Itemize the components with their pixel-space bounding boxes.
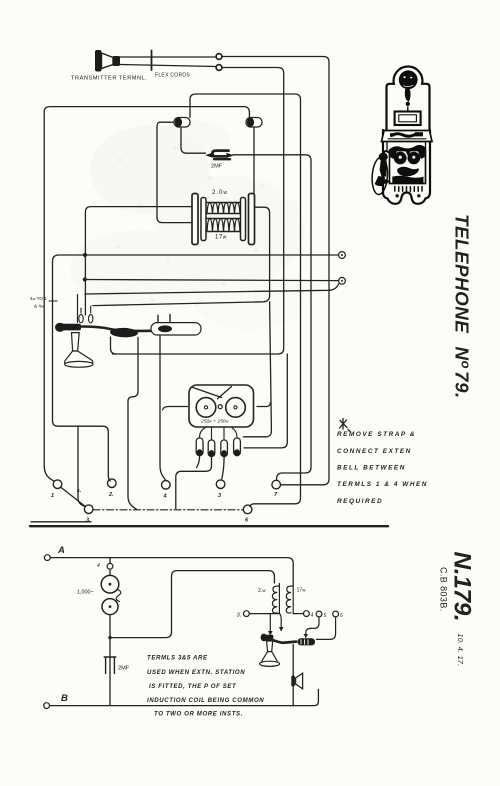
svg-text:2.: 2.	[108, 492, 114, 498]
watch receiver speaker	[291, 673, 302, 689]
junction to extension loop	[110, 571, 274, 638]
svg-text:TO TWO OR MORE INSTS.: TO TWO OR MORE INSTS.	[154, 711, 243, 718]
wire: lower flex down right side to hookswitch line	[113, 68, 284, 355]
capacitor 2MF	[205, 151, 234, 170]
note text bottom: termls 3and5	[147, 655, 264, 718]
svg-text:2.0w: 2.0w	[212, 190, 228, 196]
svg-text:REMOVE STRAP &: REMOVE STRAP &	[337, 431, 416, 438]
bell terminal cylinder 3	[221, 440, 228, 457]
receiver cord loop	[371, 157, 389, 195]
wire bead to gong1	[109, 569, 111, 575]
svg-text:TERMLS 1 & 4 WHEN: TERMLS 1 & 4 WHEN	[337, 481, 428, 488]
terminal circle 6 bottom	[333, 611, 339, 617]
wire: cyl2 bottom down to coil top-right	[253, 127, 255, 195]
terminal circle 3 bottom	[244, 611, 250, 617]
terminal circle 4	[162, 481, 171, 490]
ringer bell dark	[399, 70, 418, 89]
title TELEPHONE No 79 rotated	[452, 214, 474, 399]
terminal circle upper flex	[216, 54, 222, 60]
wire: bell enclosure right stub	[257, 403, 270, 407]
svg-text:4: 4	[311, 613, 314, 619]
bell clapper	[405, 89, 411, 102]
svg-text:4: 4	[97, 563, 100, 569]
svg-text:1: 1	[51, 493, 54, 499]
svg-text:B: B	[61, 693, 68, 704]
wire: outer rect left edge down to terminal 1	[44, 112, 54, 481]
bell terminal cylinder 4	[234, 438, 241, 456]
wire flex cord upper	[120, 56, 216, 58]
wire pivot riser	[77, 295, 79, 323]
induction coil IC	[192, 194, 255, 245]
terminal circle 1	[53, 480, 62, 489]
note text top: remove strap	[337, 431, 428, 505]
svg-text:C.B 803B.: C.B 803B.	[439, 567, 449, 612]
svg-text:3: 3	[218, 493, 221, 499]
hanging receiver	[379, 153, 388, 161]
wire drop to bell branch	[109, 558, 111, 564]
wire winding right bottom to circle 4	[293, 613, 303, 615]
terminal circle 2	[108, 479, 117, 488]
wire circle6 to contact capsule right	[317, 617, 336, 639]
flex cord tie mark	[151, 51, 153, 71]
wire: capacitor right across and down right side to terminal 7	[233, 155, 311, 481]
wire gong down to capacitor	[109, 615, 111, 656]
wire: branch down to bell terminal 4	[244, 354, 287, 448]
wire circle3 to winding bottom and pivot	[249, 613, 279, 615]
svg-text:2MF: 2MF	[211, 164, 223, 170]
svg-text:USED WHEN EXTN. STATION: USED WHEN EXTN. STATION	[147, 669, 245, 676]
svg-text:4: 4	[163, 494, 167, 500]
wire rung 4 to coil right side	[93, 207, 270, 305]
case box	[390, 151, 426, 184]
scan smudge noise	[70, 120, 305, 330]
hookswitch contact capsule dark	[110, 327, 138, 337]
wire drop from loop bottom to lower terminal 3	[78, 426, 85, 506]
hookswitch lever arm	[80, 327, 187, 331]
svg-text:CONNECT EXTEN: CONNECT EXTEN	[337, 448, 412, 455]
wire flex cord lower	[120, 65, 216, 67]
case bells	[394, 152, 407, 165]
wire circle5 to contact over lever	[304, 617, 319, 638]
divider tick	[31, 521, 91, 523]
wire rung 1 left loop rounded rect down around hookswitch	[53, 255, 111, 481]
hook pivot block bottom	[261, 634, 274, 642]
svg-text:REQUIRED: REQUIRED	[337, 498, 383, 505]
wire rung 1 to right terminal C1	[85, 254, 338, 256]
bell terminal stubs	[200, 427, 238, 440]
strap wire dashed lower row	[93, 509, 243, 511]
phone backboard upper	[387, 66, 430, 130]
wire: upper flex to outer right edge down to terminal 7	[222, 57, 329, 485]
svg-text:A: A	[57, 545, 65, 556]
bell armature pivot	[218, 405, 222, 409]
svg-text:4w TO 1: 4w TO 1	[30, 296, 47, 301]
terminal circle 5 bottom	[316, 611, 322, 617]
wire line B	[50, 690, 319, 706]
svg-text:1,000~: 1,000~	[77, 590, 94, 596]
hookswitch spring contact right	[89, 306, 93, 323]
slate frame	[395, 112, 421, 126]
svg-text:3.: 3.	[237, 613, 242, 619]
wire: contact block drop vc to terminal 4	[160, 336, 166, 480]
dark band battery box	[392, 176, 423, 184]
svg-text:5: 5	[324, 613, 327, 619]
svg-text:250w + 250w: 250w + 250w	[200, 419, 229, 425]
label left small	[30, 296, 47, 309]
terminal circle 4 bottom	[304, 611, 310, 617]
hookswitch spring contact left	[79, 308, 83, 323]
wire: contact capsule drop to hook line	[111, 337, 117, 354]
terminal B	[44, 703, 50, 709]
wire bell term1 stub	[197, 456, 200, 468]
svg-text:TELEPHONE: TELEPHONE	[452, 214, 473, 333]
receiver horn on hook	[65, 333, 94, 368]
small terminal bead	[107, 563, 113, 569]
wire: capsule right drop column va	[128, 338, 138, 510]
bell gong upper 1000ohm	[101, 575, 119, 593]
divider line between diagrams	[30, 525, 388, 527]
wire line A to transformer right winding	[50, 558, 293, 583]
terminal A	[44, 555, 50, 561]
shelf	[382, 131, 433, 142]
bell gong lower	[102, 599, 118, 615]
svg-text:6: 6	[340, 613, 343, 619]
terminal circle 3	[216, 480, 225, 489]
wire: outer rect top edge from left edge into receiver cyl2	[44, 107, 249, 117]
wire: receiver cyl1 right end up, across y94, down right side to lower terminal 6	[190, 94, 301, 507]
wire: cyl1 left stub down to coil lower-left	[157, 122, 192, 222]
svg-text:BELL BETWEEN: BELL BETWEEN	[337, 465, 406, 472]
junction dot B	[83, 277, 87, 281]
wire bell term3 to terminal 3	[222, 457, 224, 479]
terminal circle lower flex	[216, 65, 222, 71]
receiver horn bottom	[260, 641, 280, 666]
wavy dark band top of case	[389, 145, 425, 151]
svg-text:2MF: 2MF	[118, 666, 130, 672]
svg-text:10. 4. 17.: 10. 4. 17.	[456, 634, 465, 667]
bell gong left	[196, 398, 216, 418]
terminal circle lower-right	[243, 505, 252, 514]
items on shelf	[392, 134, 416, 137]
terminal circle lower-left	[84, 505, 93, 514]
svg-text:INDUCTION COIL BEING COMMON: INDUCTION COIL BEING COMMON	[147, 697, 264, 704]
wire bell term2 down left	[176, 457, 212, 509]
junction dot bottom	[108, 636, 111, 639]
junction dot A	[83, 253, 87, 257]
svg-text:TRANSMITTER TERMNL.: TRANSMITTER TERMNL.	[71, 76, 147, 82]
hookswitch pivot block	[55, 323, 81, 332]
wire cross diagonals bell hammer	[192, 387, 232, 399]
note asterisk mark	[340, 419, 351, 432]
terminal number labels	[51, 488, 278, 524]
terminal circle 7	[272, 480, 281, 489]
svg-text:& 4w.: & 4w.	[34, 304, 45, 309]
svg-text:FLEX CORDS: FLEX CORDS	[155, 73, 190, 79]
svg-text:17w: 17w	[215, 235, 227, 241]
contact finger 2	[279, 613, 284, 632]
wire: cyl1 bottom to capacitor	[181, 127, 206, 153]
right terminal circle C1	[339, 252, 346, 259]
bell terminal cylinder 2	[208, 440, 215, 457]
hookswitch contact block outline	[151, 315, 201, 336]
transformer left winding	[272, 584, 279, 614]
wire: bell enclosure left stub	[163, 407, 188, 411]
svg-text:IS FITTED, THE P OF SET: IS FITTED, THE P OF SET	[149, 683, 237, 690]
bell terminal cylinder 1	[196, 438, 203, 456]
transmitter mouthpiece	[397, 167, 419, 177]
feet dots	[396, 194, 399, 197]
capacitor 2MF bottom	[104, 657, 116, 706]
receiver terminal cylinder 1	[174, 118, 190, 128]
wire rung 3 curving up to terminal C2	[85, 284, 339, 294]
strap wire slant term1 to lower	[61, 487, 85, 506]
wire: coil upper-left going left and down (to junction column)	[85, 207, 192, 315]
wire lever down to B line	[292, 645, 294, 706]
wire: coil-right column continues down to bell terminal row	[244, 302, 272, 437]
receiver terminal cylinder 2	[246, 118, 262, 128]
svg-text:TERMLS 3&5 ARE: TERMLS 3&5 ARE	[147, 655, 208, 662]
mid white band	[387, 142, 426, 151]
svg-text:N.179.: N.179.	[449, 552, 476, 622]
transformer right winding	[286, 584, 293, 614]
contact capsule dark bottom	[298, 638, 316, 645]
bell enclosure	[189, 385, 254, 427]
svg-text:No79.: No79.	[452, 347, 474, 399]
comb ticks bottom of case	[395, 187, 422, 192]
contact finger 1	[268, 614, 273, 636]
svg-text:k.: k.	[77, 488, 81, 494]
bell gong right	[226, 398, 246, 418]
label pointer tick	[49, 300, 57, 302]
phone backboard lower	[383, 130, 430, 204]
hook lever bottom	[267, 640, 296, 643]
wire rung 2 to right terminal C2	[85, 280, 338, 281]
svg-text:3.: 3.	[86, 518, 91, 524]
right terminal circle C2	[339, 277, 346, 284]
receiver hook	[384, 151, 389, 153]
inter-gong squiggle	[116, 590, 121, 602]
transmitter T1	[95, 50, 120, 72]
